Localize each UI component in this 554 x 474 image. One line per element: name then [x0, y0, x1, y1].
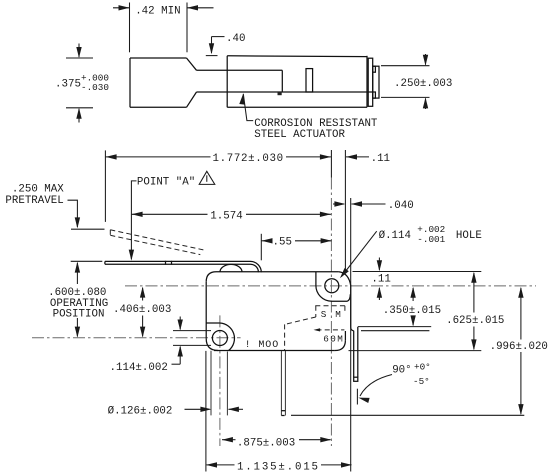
plunger window — [306, 69, 313, 92]
svg-text:+0°: +0° — [414, 362, 431, 373]
dim .40 — [212, 36, 225, 38]
dim .11 vertical — [378, 258, 380, 270]
svg-text:.875±.003: .875±.003 — [237, 437, 295, 449]
svg-text:.375: .375 — [55, 79, 81, 91]
ear arc (top right) — [339, 272, 351, 327]
dim .040 — [333, 203, 344, 205]
body right edge (below terminal) — [344, 331, 346, 340]
hole 2 — [212, 331, 227, 346]
svg-text:S: S — [321, 309, 327, 320]
svg-text:60M: 60M — [323, 334, 344, 345]
lever bottom line — [105, 264, 259, 272]
point A label — [131, 181, 136, 259]
switch body (top view) left edge — [226, 56, 228, 108]
corrosion resistant steel actuator label — [243, 94, 253, 121]
dim .350 — [412, 288, 414, 301]
lever top line — [105, 261, 261, 272]
svg-text:.11: .11 — [371, 153, 390, 165]
hole 1 — [325, 279, 339, 293]
ext body top right — [353, 271, 482, 273]
ext body bottom right — [349, 350, 482, 352]
svg-text:.114±.002: .114±.002 — [110, 362, 168, 374]
dim .996 — [520, 288, 522, 340]
actuator strip top edge — [197, 69, 283, 71]
right terminal flat top — [358, 326, 431, 328]
switch body bottom edge — [227, 106, 367, 108]
pins bottom reference line — [291, 414, 524, 416]
actuator taper bottom — [187, 92, 197, 107]
middle pin — [280, 351, 282, 416]
body bottom edge — [214, 350, 335, 352]
end cap — [368, 58, 373, 106]
dim .406 — [142, 288, 144, 301]
dim .55 — [260, 234, 262, 260]
dim 90° — [356, 389, 358, 405]
svg-text:Ø.114: Ø.114 — [379, 230, 411, 242]
dim .600 operating position — [76, 263, 78, 284]
dim .42 MIN — [129, 3, 131, 53]
svg-text:! MOO: ! MOO — [245, 340, 280, 351]
lever tip — [104, 261, 106, 264]
svg-text:.250 MAX: .250 MAX — [12, 183, 64, 195]
svg-text:1.135±.015: 1.135±.015 — [237, 461, 320, 473]
slot line top — [173, 330, 211, 332]
ext line body right edge — [344, 150, 346, 272]
svg-text:.040: .040 — [388, 200, 414, 212]
dim .625 — [473, 273, 475, 313]
dim .11 top — [346, 156, 369, 158]
plunger notch bottom — [373, 92, 376, 98]
svg-text:1.772±.030: 1.772±.030 — [213, 153, 284, 165]
vertical solid top of hole1 centerline — [330, 150, 332, 178]
dim 1.135 — [205, 351, 207, 472]
dashed lever free position — [110, 230, 203, 250]
boss around hole 1 — [316, 272, 350, 301]
dim .250±.003 — [381, 65, 430, 67]
hidden internal mechanism — [315, 305, 345, 307]
svg-text:.42 MIN: .42 MIN — [135, 5, 180, 17]
svg-text:.40: .40 — [226, 33, 245, 45]
svg-text:.406±.003: .406±.003 — [113, 304, 171, 316]
svg-text:PRETRAVEL: PRETRAVEL — [5, 195, 63, 207]
body bottom-left corner — [206, 338, 218, 350]
svg-text:90°: 90° — [392, 365, 411, 377]
plunger notch top — [373, 66, 376, 72]
dim .375 — [66, 57, 93, 59]
boss around hole 2 — [206, 323, 234, 350]
svg-text:Ø.126±.002: Ø.126±.002 — [108, 405, 173, 417]
svg-text:.250±.003: .250±.003 — [394, 78, 452, 90]
vertical centerline hole 2 — [219, 315, 221, 446]
svg-text:.11: .11 — [371, 274, 390, 286]
body left edge — [205, 282, 207, 339]
actuator strip bottom edge — [197, 91, 373, 93]
dim .875 — [222, 439, 236, 441]
hole leader Ø.114 — [342, 231, 377, 276]
actuator blade top edge — [130, 57, 187, 59]
plunger dome — [220, 264, 242, 272]
dim 1.574 — [132, 213, 208, 215]
note triangle 1 — [199, 171, 215, 184]
svg-text:.996±.020: .996±.020 — [490, 341, 548, 353]
body top edge — [206, 272, 339, 282]
svg-text:-.030: -.030 — [81, 82, 109, 93]
centerline through hole 1 / operating position — [125, 285, 536, 287]
ext line terminal edge (long) — [350, 198, 352, 472]
ext line lever tip (1.772) — [104, 150, 106, 222]
weld nib — [278, 92, 282, 95]
actuator taper top — [187, 58, 197, 70]
centerline through hole 2 — [32, 337, 241, 339]
free position line — [71, 228, 105, 230]
svg-text:.350±.015: .350±.015 — [383, 305, 441, 317]
svg-text:M: M — [335, 309, 341, 320]
left round pin (Ø.126) — [210, 351, 212, 416]
svg-text:-.001: -.001 — [417, 234, 445, 245]
svg-text:POINT "A": POINT "A" — [137, 177, 195, 189]
vertical centerline hole 1 — [330, 178, 332, 447]
svg-text:HOLE: HOLE — [456, 230, 482, 242]
switch body top edge — [227, 55, 367, 58]
svg-text:.55: .55 — [273, 237, 292, 249]
actuator blade left edge — [129, 58, 131, 107]
lever ticks — [165, 261, 167, 265]
slot line bottom — [173, 344, 211, 346]
actuator blade bottom edge — [130, 106, 187, 108]
actuator strip end — [281, 70, 283, 92]
plunger button — [373, 66, 379, 98]
dim 1.772 — [105, 156, 210, 158]
lever ext line — [71, 260, 103, 262]
right terminal flat bottom — [361, 330, 429, 332]
svg-text:POSITION: POSITION — [53, 308, 105, 320]
svg-text:STEEL ACTUATOR: STEEL ACTUATOR — [254, 129, 345, 141]
switch body right edge — [366, 56, 368, 108]
svg-text:1.574: 1.574 — [210, 210, 242, 222]
dim .114 — [179, 317, 181, 330]
svg-text:.625±.015: .625±.015 — [446, 315, 504, 327]
body bottom-right corner — [335, 340, 346, 350]
terminal bend — [351, 327, 354, 331]
right pin — [353, 331, 355, 378]
svg-text:-5°: -5° — [413, 376, 430, 387]
